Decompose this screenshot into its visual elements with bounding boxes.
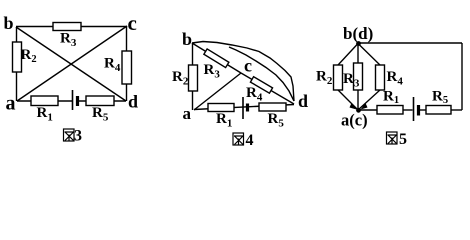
caption 图3	[64, 129, 75, 141]
wire a(c) to R1	[358, 109, 377, 111]
wire b-d inner arc	[229, 47, 294, 101]
wire b-d outer arc	[192, 42, 294, 102]
wire middle branch	[357, 44, 359, 111]
svg-text:c: c	[128, 11, 137, 35]
svg-text:b: b	[182, 29, 192, 49]
wire battery-d (bottom right part)	[78, 100, 126, 102]
caption 图5	[387, 132, 398, 144]
node a(c)	[356, 108, 361, 113]
svg-text:b: b	[4, 13, 14, 33]
caption 图4	[233, 133, 244, 145]
resistor R2	[334, 65, 343, 90]
resistor R4	[122, 51, 132, 84]
wire right side	[461, 43, 463, 110]
wire b-d diagonal	[16, 27, 126, 101]
wire b-a (left)	[192, 43, 194, 110]
svg-text:3: 3	[74, 128, 82, 145]
resistor R2	[13, 42, 22, 72]
wire a-c diagonal	[17, 26, 127, 101]
resistor R5	[259, 103, 286, 111]
resistor R3	[354, 63, 363, 90]
wire battery to R5	[420, 109, 426, 111]
svg-text:a(c): a(c)	[341, 111, 368, 130]
resistor R5	[86, 96, 114, 106]
svg-text:a: a	[6, 93, 16, 115]
battery long plate	[413, 97, 415, 121]
resistor R3 (tilted)	[204, 49, 229, 68]
resistor R3	[53, 23, 81, 31]
resistor R4	[376, 65, 385, 90]
svg-text:4: 4	[246, 132, 254, 149]
wire top b(d) to right	[358, 42, 462, 44]
wire a-d (bottom left part)	[17, 100, 72, 102]
wire c-d (right)	[126, 26, 128, 101]
svg-text:d: d	[298, 91, 308, 111]
wire R5 to right corner	[451, 109, 462, 111]
wire b-c (top)	[16, 26, 127, 28]
battery short plate	[246, 104, 249, 112]
resistor R5	[426, 106, 451, 115]
resistor R1	[377, 106, 403, 115]
resistor R1	[31, 96, 58, 106]
battery short plate	[417, 105, 420, 116]
battery long plate	[72, 90, 74, 110]
resistor R2	[189, 65, 198, 91]
wire a-c	[194, 73, 241, 110]
svg-text:d: d	[128, 92, 138, 112]
wire b-a (left)	[16, 27, 18, 101]
wire c-d	[241, 73, 294, 104]
wire a-d (bottom)	[194, 105, 294, 110]
svg-text:a: a	[183, 104, 192, 123]
svg-text:5: 5	[399, 131, 407, 148]
wire left branch	[338, 44, 358, 111]
svg-text:b(d): b(d)	[343, 24, 373, 43]
svg-text:c: c	[244, 56, 252, 76]
node b(d)	[356, 41, 361, 46]
resistor R1	[208, 104, 234, 112]
battery long plate	[242, 97, 244, 119]
wire right branch	[358, 44, 380, 111]
battery short plate	[76, 96, 79, 106]
resistor R4 (tilted)	[250, 77, 272, 93]
wire R1 to battery	[403, 109, 413, 111]
arrowhead right diagonal into a(c)	[361, 103, 368, 110]
arrowhead left diagonal into a(c)	[350, 103, 357, 110]
wire b-c	[192, 43, 241, 73]
